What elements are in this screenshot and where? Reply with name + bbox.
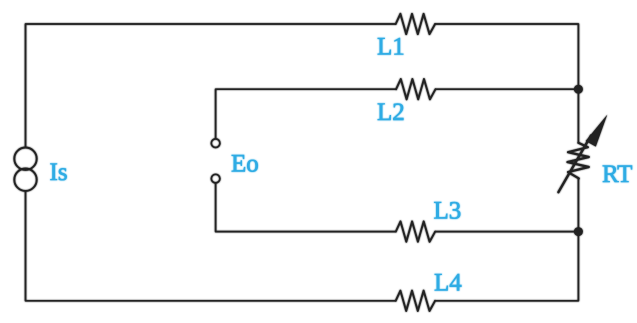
thermistor RT zigzag xyxy=(567,143,588,179)
wire xyxy=(435,178,578,300)
resistor L1 xyxy=(396,14,435,34)
terminal Eo- xyxy=(211,174,220,183)
current source Is xyxy=(14,148,36,170)
resistor L2 xyxy=(396,79,435,99)
wire xyxy=(216,183,396,232)
node junction top xyxy=(574,85,583,94)
thermistor RT arrow shaft xyxy=(558,136,591,193)
terminal Eo+ xyxy=(211,139,220,148)
wire xyxy=(26,191,396,301)
svg-text:RT: RT xyxy=(602,161,632,188)
wire xyxy=(436,88,579,90)
wire xyxy=(26,24,396,148)
svg-text:L3: L3 xyxy=(434,198,462,225)
wire xyxy=(435,24,578,143)
resistor L3 xyxy=(396,221,435,241)
svg-text:L4: L4 xyxy=(434,270,462,297)
resistor L4 xyxy=(396,291,435,311)
svg-text:L1: L1 xyxy=(377,34,405,61)
wire xyxy=(216,89,397,138)
wire xyxy=(435,231,578,233)
svg-text:Eo: Eo xyxy=(231,151,259,178)
svg-text:Is: Is xyxy=(50,159,68,186)
thermistor RT arrowhead xyxy=(586,115,608,147)
node junction bottom xyxy=(574,227,583,236)
svg-text:L2: L2 xyxy=(377,99,405,126)
